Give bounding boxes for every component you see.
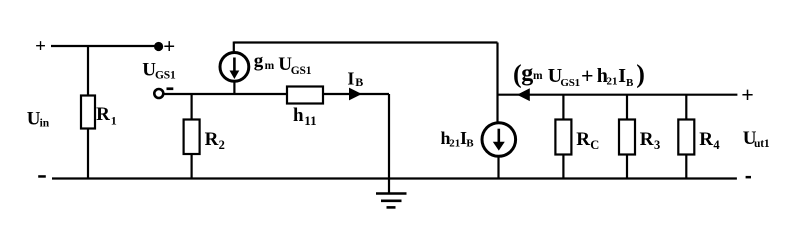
terminal U_GS1 minus (open circle) (154, 89, 163, 98)
wire R4 top (685, 95, 687, 121)
resistor R1 (81, 96, 95, 129)
wire mid from open terminal to h11 (164, 93, 288, 95)
wire top-left input (51, 45, 158, 47)
wire gm source top stub (233, 42, 235, 53)
arrow IB current (349, 88, 362, 101)
wire bottom rail (52, 177, 737, 179)
wire R3 bottom (626, 155, 628, 180)
wire R1 bottom (87, 129, 89, 180)
svg-text:+: + (741, 82, 754, 107)
resistor RC (555, 120, 571, 155)
wire R3 top (626, 95, 628, 121)
svg-text:+: + (163, 34, 175, 58)
wire h21 source bottom stub (497, 156, 499, 180)
current source gm U_GS1 (220, 53, 249, 82)
wire top horizontal collector feed (234, 41, 498, 43)
ground (376, 194, 407, 208)
wire RC bottom (562, 155, 564, 180)
label - (output bottom polarity) (746, 176, 751, 179)
wire R2 top (191, 94, 193, 121)
resistor R3 (619, 120, 635, 155)
wire h11 to corner (323, 93, 389, 95)
wire gm source bottom stub (233, 82, 235, 95)
wire base branch down (388, 94, 390, 193)
wire output top (498, 94, 738, 96)
wire R1 top (87, 46, 89, 97)
label - (U_GS1 minus) (167, 87, 174, 90)
svg-text:+: + (35, 36, 46, 57)
resistor R2 (184, 120, 200, 155)
label - (input bottom polarity) (38, 175, 46, 178)
current source h21 IB (482, 123, 516, 157)
wire right vertical from top to h21 source (496, 43, 498, 124)
node dot U_GS1 plus terminal (154, 42, 163, 51)
wire R2 bottom (191, 154, 193, 179)
resistor R4 (678, 120, 694, 155)
arrow output current (points left) (517, 88, 530, 101)
wire RC top (562, 95, 564, 121)
wire R4 bottom (685, 155, 687, 180)
resistor h11 (287, 87, 323, 104)
